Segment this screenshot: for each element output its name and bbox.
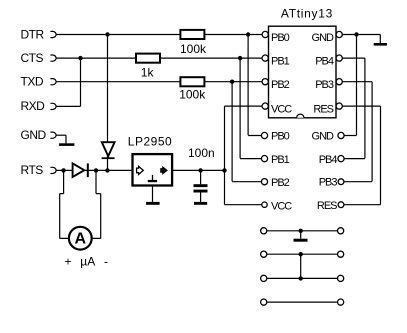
svg-text:1k: 1k [141, 66, 155, 80]
svg-text:DTR: DTR [21, 27, 45, 41]
svg-text:-: - [104, 254, 108, 268]
svg-text:100k: 100k [180, 42, 207, 56]
svg-text:VCC: VCC [271, 201, 292, 213]
svg-text:RES: RES [313, 104, 333, 116]
svg-text:PB1: PB1 [271, 154, 290, 166]
svg-text:A: A [75, 230, 87, 247]
svg-text:100n: 100n [188, 146, 215, 160]
svg-text:GND: GND [312, 32, 335, 44]
svg-text:PB0: PB0 [271, 131, 290, 143]
svg-text:ATtiny13: ATtiny13 [281, 7, 333, 21]
svg-text:PB3: PB3 [315, 79, 334, 91]
svg-text:LP2950: LP2950 [128, 135, 172, 149]
svg-text:PB4: PB4 [315, 56, 334, 68]
svg-text:PB4: PB4 [319, 154, 338, 166]
svg-text:+: + [65, 254, 72, 268]
svg-text:PB2: PB2 [271, 79, 290, 91]
svg-text:RES: RES [317, 200, 337, 212]
svg-text:PB1: PB1 [271, 56, 290, 68]
svg-text:RTS: RTS [21, 163, 44, 177]
svg-text:PB0: PB0 [271, 32, 290, 44]
svg-text:CTS: CTS [21, 51, 44, 65]
svg-text:PB2: PB2 [271, 177, 290, 189]
svg-text:GND: GND [21, 128, 47, 142]
svg-text:100k: 100k [179, 88, 206, 102]
svg-text:TXD: TXD [21, 75, 44, 89]
svg-text:GND: GND [312, 131, 335, 143]
svg-text:PB3: PB3 [319, 176, 338, 188]
svg-text:RXD: RXD [21, 99, 46, 113]
svg-text:VCC: VCC [271, 104, 292, 116]
svg-text:µA: µA [80, 254, 95, 268]
